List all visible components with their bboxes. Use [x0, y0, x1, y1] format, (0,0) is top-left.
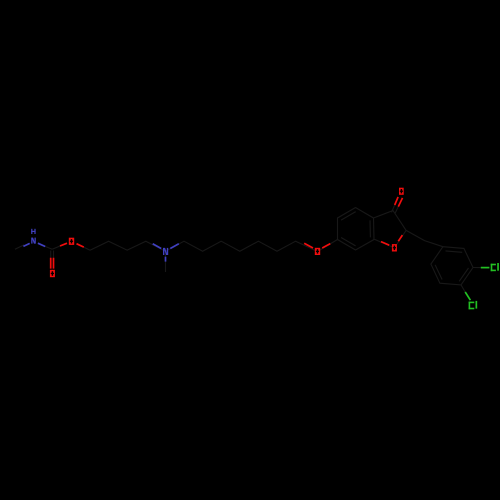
wire C=O double bond dark halves	[51, 251, 54, 259]
furanone ring bonds	[374, 211, 407, 248]
bond etherO-benzene red half	[322, 244, 330, 248]
atom label Cl1	[491, 263, 499, 271]
wire butylene chain	[90, 241, 166, 251]
bond carbonylC-esterO red half	[60, 243, 67, 246]
bond furanO-C2 red half	[398, 235, 402, 241]
ketone C=O double bond red halves	[395, 197, 403, 207]
atom label O furan	[392, 244, 397, 251]
phenyl inner aromatic lines	[435, 251, 468, 281]
bond ring-Cl2 green half	[465, 292, 470, 300]
dichlorophenyl ring	[431, 247, 473, 285]
atom label O ester	[69, 238, 74, 245]
carbamate C=O double bond red halves	[51, 258, 54, 269]
wire methyl-N1 bond	[15, 245, 24, 249]
bond N2 up-right blue half	[170, 244, 179, 249]
atom label Cl2	[469, 301, 478, 309]
wire esterO-chain dark half	[84, 247, 90, 250]
atom label H on N1	[31, 229, 35, 234]
bond N1-carbonyl blue half	[38, 243, 45, 246]
wire carbonylC-esterO bond dark half	[52, 246, 60, 249]
wire N1-carbonylC bond dark half	[45, 246, 53, 249]
atom label O carbonyl	[50, 270, 55, 277]
bond etherO-chain red half	[304, 243, 313, 248]
wire etherO-benzene bond	[318, 240, 338, 252]
wire C4ring-Cl2 dark half	[461, 285, 465, 292]
benzene inner aromatic lines	[341, 212, 370, 246]
atom label O ketone	[399, 188, 404, 195]
atom label N1	[31, 238, 36, 244]
atom label N2	[163, 248, 168, 255]
wire C2-benzylidene bond	[406, 230, 443, 246]
wire N2 methyl bond	[165, 251, 167, 272]
ketone C=O dark halves	[392, 205, 399, 214]
bond ring-Cl1 green half	[481, 267, 490, 269]
bond N1-methyl blue half	[23, 243, 29, 246]
bond furanO-C7a red half	[381, 242, 389, 246]
wire C3ring-Cl1 dark half	[473, 267, 481, 269]
atom label O ether	[315, 248, 320, 255]
bond N2 up-left blue half	[153, 244, 162, 249]
wire heptylene chain	[166, 241, 318, 251]
bond esterO-chain red half	[77, 244, 84, 247]
bond N2 methyl blue half	[165, 257, 167, 262]
benzene ring	[338, 208, 375, 251]
